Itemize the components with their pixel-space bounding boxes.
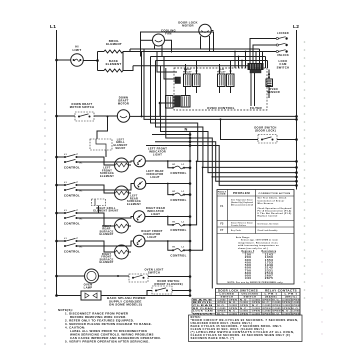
svg-text:SWITCH: SWITCH — [277, 65, 290, 69]
oven control dashed enclosure — [174, 68, 267, 110]
wire bus drop d2 — [262, 52, 264, 64]
wire N bus — [189, 132, 191, 296]
wire bus b2 — [130, 49, 260, 52]
svg-text:Replace Control: Replace Control — [258, 215, 278, 218]
service notes — [58, 308, 161, 343]
svg-text:H1: H1 — [80, 246, 84, 248]
svg-text:RELAY: RELAY — [183, 70, 192, 73]
svg-text:MOTOR: MOTOR — [182, 24, 194, 28]
svg-text:Circuits Failure: Circuits Failure — [231, 224, 246, 227]
wire ring 7 — [155, 140, 298, 182]
connector oven control plug — [248, 64, 263, 73]
svg-text:NOTES:: NOTES: — [191, 317, 201, 319]
svg-text:Oven Temperature Sensor: Oven Temperature Sensor — [231, 199, 253, 202]
svg-text:H1: H1 — [80, 190, 84, 192]
wire ring 8 — [146, 144, 298, 187]
wire transformer lead — [159, 102, 175, 117]
lamp oven lamp — [84, 269, 99, 289]
node L1 label — [50, 24, 56, 30]
svg-text:Wire Harness: Wire Harness — [258, 203, 275, 205]
svg-text:NOTE: For use by SERVICE PERS: NOTE: For use by SERVICE PERSONNEL only. — [228, 282, 284, 284]
wire element to indicator 2 — [77, 184, 134, 194]
svg-text:shown (use only for ref.): shown (use only for ref.) — [238, 248, 268, 250]
switch surface control C4 — [55, 238, 83, 254]
lamp right front indicator light — [133, 229, 162, 247]
svg-text:CLEAN CYCLES 60 SECONDS. 30 SE: CLEAN CYCLES 60 SECONDS. 30 SECONDS WHEN… — [191, 334, 291, 337]
svg-text:H1: H1 — [172, 191, 176, 193]
switch door switch door lock — [254, 126, 277, 143]
relay K4 — [227, 61, 235, 94]
svg-text:If The Not Resolved (F1-9): If The Not Resolved (F1-9) — [258, 212, 292, 215]
svg-text:F7: F7 — [220, 230, 224, 232]
svg-text:(*) LPB1/LPB2 SWITCH CONTACTS: (*) LPB1/LPB2 SWITCH CONTACTS CYCLED AT … — [191, 331, 295, 334]
svg-text:ELEMENT: ELEMENT — [99, 233, 113, 236]
svg-text:2875: 2875 — [265, 277, 274, 280]
wire bundle B top — [245, 51, 247, 68]
wire control box left leads — [157, 52, 177, 80]
filter label — [250, 106, 263, 110]
svg-text:H1: H1 — [172, 247, 176, 249]
svg-text:with increasing temperature as: with increasing temperature as — [238, 244, 279, 247]
svg-text:BAKE CYCLES 45 SECONDS. 7 SEC: BAKE CYCLES 45 SECONDS. 7 SECONDS BROIL … — [191, 325, 283, 328]
svg-text:ELEMENT: ELEMENT — [100, 175, 114, 178]
wire L2 bus — [296, 30, 298, 190]
svg-text:Sensor app. 1078 OHMS at room: Sensor app. 1078 OHMS at room — [241, 239, 278, 242]
switch door switch front closure — [152, 279, 183, 294]
svg-text:LOCKED: LOCKED — [277, 32, 289, 35]
switch indicator control 3 — [170, 221, 186, 232]
node N label — [184, 126, 187, 131]
wire indicator 4 to N — [145, 240, 191, 243]
wire bus b1 — [123, 51, 263, 53]
table fault codes frame — [217, 190, 294, 285]
wire shunt2 to C3 — [98, 206, 100, 214]
svg-text:Key Code: Key Code — [231, 230, 242, 232]
svg-text:LIGHT: LIGHT — [147, 235, 156, 239]
wire riser b-1 — [234, 51, 236, 68]
svg-text:(Heated Up) Keyboard: (Heated Up) Keyboard — [231, 201, 253, 204]
relay K6 dark block — [175, 77, 181, 84]
shunt left grill element shunt — [90, 138, 128, 150]
wire n branch right 2 — [190, 167, 204, 251]
wire door lock switch leads — [220, 118, 298, 140]
wire indicator branch 2 — [167, 183, 191, 196]
svg-text:Auto Range:: Auto Range: — [236, 236, 250, 239]
wire door lock motor leads — [201, 31, 214, 52]
lamp left front indicator light — [134, 147, 167, 167]
wire ring 3 — [151, 57, 298, 163]
svg-text:See Test Charts. Check: See Test Charts. Check — [258, 197, 288, 200]
wire indicator 2 to N — [146, 182, 192, 185]
svg-text:ELEMENT SHUNT: ELEMENT SHUNT — [93, 210, 118, 213]
svg-text:ELEMENT: ELEMENT — [99, 261, 113, 264]
wire indicator branch 4 — [167, 240, 191, 251]
svg-text:FILTER: FILTER — [250, 106, 263, 110]
resistor bake element — [104, 59, 123, 72]
wire element to indicator 1 — [77, 161, 134, 165]
svg-text:LIGHT: LIGHT — [150, 175, 159, 179]
svg-text:ELEMENT: ELEMENT — [106, 62, 122, 66]
connector back splash receptacle — [81, 291, 101, 300]
svg-text:H1: H1 — [172, 221, 176, 223]
relay K2 broil relay — [193, 61, 201, 94]
relay K5 — [166, 96, 174, 109]
svg-text:temperature. Resistance rises: temperature. Resistance rises — [238, 241, 278, 244]
lamp left rear indicator light — [134, 169, 164, 189]
heating element right front surface — [99, 245, 128, 264]
wire indicator branch 3 — [167, 216, 191, 227]
wire L1 bus — [56, 30, 58, 296]
svg-text:CONTROL: CONTROL — [170, 253, 186, 257]
heating element left rear surface — [115, 186, 142, 206]
sensor oven sensor — [266, 79, 280, 94]
wire cooling fan leads — [141, 40, 172, 56]
svg-text:CODE: CODE — [218, 194, 226, 196]
relay K3 — [217, 64, 226, 93]
wire ring 5 — [161, 66, 298, 174]
svg-text:CORRECTIVE ACTION: CORRECTIVE ACTION — [259, 192, 291, 195]
svg-text:RELAY: RELAY — [217, 70, 226, 73]
door lock table notes — [189, 315, 303, 342]
heating element right rear surface — [99, 219, 128, 236]
svg-text:CONTROL: CONTROL — [64, 250, 80, 254]
wire bus drop d4 — [267, 61, 269, 69]
wire hi-limit to elements — [83, 60, 97, 62]
svg-text:Per A Disconnection (F1-4): Per A Disconnection (F1-4) — [258, 209, 292, 212]
switch indicator control 2 — [170, 191, 186, 202]
svg-text:(DOOR LOCK): (DOOR LOCK) — [255, 129, 276, 133]
wire motor to bundle — [130, 115, 142, 117]
switch lock cam — [276, 32, 289, 69]
wire switch to shunt — [97, 115, 109, 139]
svg-text:5. VERIFY PROPER OPERATION AFT: 5. VERIFY PROPER OPERATION AFTER SERVICI… — [65, 339, 150, 343]
svg-text:UNLOCKED DOOR ONLY. (BAKE ONLY: UNLOCKED DOOR ONLY. (BAKE ONLY.) — [191, 322, 253, 325]
relay K1 bake relay — [183, 64, 192, 96]
svg-text:RELAY CONTACTS: RELAY CONTACTS — [265, 289, 297, 292]
wire L1 to receptacle — [55, 294, 81, 297]
svg-text:LIGHT: LIGHT — [151, 212, 160, 216]
wire C1 to element — [77, 157, 116, 165]
svg-text:See Sensor, See Chart: See Sensor, See Chart — [258, 223, 279, 226]
wire indicator 1 to N — [145, 160, 191, 163]
svg-text:Disconnected: Disconnected — [231, 204, 253, 207]
svg-text:Check Operation of Keyboard: Check Operation of Keyboard — [258, 207, 292, 210]
svg-text:SHUNT: SHUNT — [115, 147, 125, 150]
wire ring 2 — [144, 49, 298, 121]
wire indicator 3 to N — [145, 215, 191, 218]
wire n feed — [152, 133, 191, 136]
svg-text:F1: F1 — [220, 206, 224, 208]
svg-text:H1: H1 — [80, 218, 84, 220]
wire riser b-3 — [241, 60, 243, 68]
wire shunt to C1 row — [105, 150, 107, 157]
svg-text:CLEAN CYCLES 60 SEC. ONLY. (CL: CLEAN CYCLES 60 SEC. ONLY. (CLEAN ONLY.) — [191, 328, 265, 331]
svg-text:N: N — [184, 126, 187, 131]
wire ring 1 — [141, 52, 298, 118]
wire n branch right 1 — [190, 161, 198, 225]
svg-text:ELEMENT: ELEMENT — [106, 42, 122, 46]
motor cooling fan — [153, 29, 176, 46]
wire fan motor loop — [141, 32, 214, 57]
svg-text:H1: H1 — [80, 162, 84, 164]
wire element to indicator 4 — [77, 241, 133, 252]
svg-text:CONTROL: CONTROL — [64, 166, 80, 170]
switch down draft motor switch — [70, 102, 94, 121]
back splash label — [107, 296, 146, 307]
svg-text:Connection of Sensor: Connection of Sensor — [258, 199, 285, 202]
svg-text:MOTOR SWITCH: MOTOR SWITCH — [70, 105, 94, 109]
svg-text:PROBLEM: PROBLEM — [233, 193, 250, 195]
wire bus b4 — [156, 60, 268, 62]
svg-text:(FRONT CLOSURE): (FRONT CLOSURE) — [154, 282, 183, 286]
svg-text:LOCK CAM: LOCK CAM — [193, 310, 213, 313]
heating element left front surface — [100, 158, 129, 178]
svg-text:CONTROL: CONTROL — [170, 198, 186, 202]
switch indicator control 4 — [170, 247, 186, 258]
svg-text:1000: 1000 — [245, 277, 252, 280]
wire C2 to element — [77, 185, 116, 193]
node L2 label — [293, 24, 299, 30]
svg-text:L2: L2 — [293, 24, 299, 30]
wire bus drop d3 — [265, 57, 267, 69]
svg-text:SWITCH: SWITCH — [148, 271, 160, 275]
switch indicator control 1 — [170, 164, 186, 175]
svg-text:OVEN CONTROL: OVEN CONTROL — [207, 106, 235, 110]
wire riser b-2 — [238, 56, 240, 68]
oven control label — [207, 106, 235, 110]
wire C3 to element — [77, 213, 116, 226]
svg-text:H1: H1 — [172, 164, 176, 166]
wire switch to motor — [94, 115, 118, 117]
wire L1 to down draft switch — [55, 115, 75, 118]
shunt right grill element shunt — [92, 199, 119, 213]
svg-text:CONTROL: CONTROL — [64, 194, 80, 198]
svg-text:UNLOCK: UNLOCK — [277, 54, 289, 57]
wire light switch to N — [148, 275, 191, 278]
switch surface control C3 — [55, 210, 83, 226]
svg-text:*DOOR CIRCUIT RE-CYCLES 90 SEC: *DOOR CIRCUIT RE-CYCLES 90 SECONDS. 7 SE… — [191, 320, 299, 322]
wire bus drop d1 — [259, 49, 261, 64]
switch surface control C2 — [55, 182, 83, 198]
svg-text:CONTROL: CONTROL — [170, 228, 186, 232]
svg-text:MOTOR: MOTOR — [118, 101, 129, 105]
table fault codes rows — [220, 197, 292, 233]
svg-text:Check Lock Assembly: Check Lock Assembly — [258, 229, 278, 232]
wire L1 to hi-limit — [55, 59, 70, 62]
svg-text:SENSOR: SENSOR — [267, 90, 280, 94]
svg-text:LIMIT: LIMIT — [72, 48, 81, 52]
wire front closure leads — [147, 289, 191, 295]
svg-text:CONTROL: CONTROL — [64, 222, 80, 226]
svg-text:SECONDS BAKE ONLY. (*): SECONDS BAKE ONLY. (*) — [191, 337, 235, 340]
wire bus b5 — [133, 65, 250, 67]
switch oven light switch — [129, 268, 164, 283]
wire ring 4 — [156, 61, 298, 169]
wire element to indicator 3 — [77, 217, 133, 227]
motor door lock — [178, 21, 211, 37]
motor down draft motor — [117, 95, 129, 122]
thermostat HI LIMIT — [71, 45, 84, 67]
wire receptacle to N — [101, 294, 191, 297]
svg-text:F3: F3 — [220, 223, 224, 225]
wire lock cam column — [211, 176, 213, 289]
switch surface control C1 — [55, 154, 83, 170]
wire bus b3 — [151, 56, 266, 58]
svg-text:LIGHT: LIGHT — [153, 153, 162, 157]
svg-text:ON SOME MODELS): ON SOME MODELS) — [109, 303, 142, 307]
wire ring 6 — [166, 68, 298, 178]
svg-text:LAMP: LAMP — [84, 285, 93, 289]
svg-text:CONTROL: CONTROL — [170, 171, 186, 175]
wire L1 to oven lamp — [55, 275, 84, 278]
wire sensor lead — [268, 70, 270, 99]
wire element split — [96, 52, 104, 71]
table sensor resistance — [228, 236, 284, 284]
lamp right rear indicator light — [133, 206, 165, 222]
wire indicator branch 1 — [167, 160, 191, 169]
wire element join — [123, 52, 133, 71]
wire plug internal leads — [251, 73, 255, 106]
resistor broil element — [104, 39, 123, 53]
svg-text:FAN: FAN — [165, 32, 171, 36]
transformer T1 — [175, 96, 191, 108]
svg-text:L1: L1 — [50, 24, 56, 30]
wire lock cam leads — [250, 39, 276, 64]
wire lamp to light switch — [99, 275, 130, 277]
wire C4 to element — [77, 241, 116, 252]
svg-text:ELEMENT: ELEMENT — [127, 203, 141, 206]
table door lock switches — [192, 289, 300, 316]
